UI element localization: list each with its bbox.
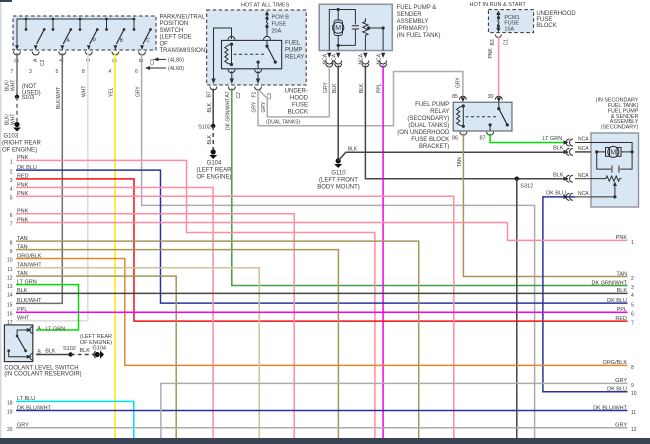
primary pump internal top bus [329, 10, 355, 51]
relay coil [225, 43, 233, 66]
left wire 16 PPL [7, 307, 628, 317]
wire WHT pin8 vertical [16, 53, 88, 321]
primary motor [333, 8, 344, 51]
svg-text:NCA: NCA [323, 53, 329, 64]
svg-text:PPL: PPL [617, 307, 627, 313]
left wire 6 PNK [10, 209, 294, 438]
wire BLK primary pump 2 to S312 run [365, 66, 568, 179]
wire BLK coolant to S102 [36, 354, 71, 356]
switch blade 5 (B) [114, 28, 126, 50]
page corner mark [0, 0, 12, 2]
svg-text:7: 7 [10, 222, 13, 228]
svg-text:A7: A7 [225, 91, 231, 97]
connector arcs below switch pins [14, 52, 146, 56]
svg-text:8: 8 [631, 365, 634, 371]
svg-text:S102: S102 [63, 346, 76, 352]
switch blade 3 (A) [60, 28, 72, 50]
svg-text:6: 6 [631, 312, 634, 318]
wire GRY primary pump [328, 66, 330, 117]
svg-text:OF ENGINE): OF ENGINE) [2, 148, 37, 154]
left wire 3 RED [10, 174, 628, 321]
connector arcs below dashed box [210, 87, 262, 91]
bottom page bar [0, 438, 650, 444]
primary pump label [397, 5, 441, 39]
svg-text:12: 12 [631, 427, 637, 433]
svg-text:PCM B: PCM B [272, 15, 290, 21]
wire link into secondary box blk2 [575, 178, 591, 180]
svg-text:15A: 15A [504, 26, 514, 32]
svg-text:FUSE: FUSE [272, 22, 287, 28]
svg-text:HOT AT ALL TIMES: HOT AT ALL TIMES [241, 3, 290, 9]
left wire 13 LT GRN [7, 279, 79, 330]
svg-text:BLK/: BLK/ [4, 80, 10, 91]
fuel pump sender assembly secondary box [591, 133, 639, 207]
fuse PCM1 15A [496, 11, 519, 33]
primary capacitor [338, 26, 359, 46]
svg-text:C2: C2 [40, 59, 46, 66]
svg-text:GRY: GRY [323, 82, 329, 93]
svg-text:BLK: BLK [348, 147, 358, 153]
svg-text:FUEL PUMP &: FUEL PUMP & [397, 5, 437, 11]
svg-text:GRY: GRY [261, 101, 267, 112]
svg-text:(ON UNDERHOOD: (ON UNDERHOOD [397, 130, 450, 136]
svg-text:USED): USED) [22, 91, 41, 97]
svg-text:BLK: BLK [553, 172, 564, 178]
right wire 7 RED [615, 316, 634, 327]
svg-text:POSITION: POSITION [160, 21, 189, 27]
primary pump pin arrows and connectors [327, 53, 385, 58]
svg-text:18: 18 [7, 401, 13, 407]
secondary relay label [397, 102, 450, 150]
connector arcs above secondary relay [459, 96, 502, 100]
NCA connectors secondary (4x arrow + arcs) [566, 139, 573, 200]
wire BLK primary pump to G110 [337, 66, 339, 161]
svg-text:NCA: NCA [332, 53, 338, 64]
svg-text:BLK: BLK [207, 134, 213, 144]
fuse PCM B 20A [265, 11, 289, 37]
underhood fuse block label (top right) [536, 11, 576, 29]
svg-text:BLK/: BLK/ [4, 114, 10, 125]
coolant switch connector arcs [30, 327, 33, 361]
svg-text:FUEL PUMP: FUEL PUMP [415, 102, 449, 108]
secondary internal feed from LT GRN [575, 143, 632, 152]
svg-text:WHT: WHT [17, 316, 30, 322]
fuel pump relay secondary box [453, 102, 512, 131]
splice S102 lower [63, 346, 76, 357]
(NOT USED) label pin 3 [22, 84, 41, 97]
svg-text:BLK: BLK [80, 348, 91, 354]
svg-text:10: 10 [7, 258, 13, 264]
svg-text:TAN: TAN [457, 157, 463, 167]
(4L80) arrow [154, 57, 185, 63]
svg-text:PUMP: PUMP [285, 48, 302, 54]
svg-text:9: 9 [10, 249, 13, 255]
wire A7 to dashed box bottom [231, 71, 233, 81]
svg-text:C1: C1 [504, 39, 510, 46]
left wire 1 PNK [10, 155, 375, 438]
left wire 7 PNK [10, 217, 628, 240]
svg-text:HOT IN RUN & START: HOT IN RUN & START [470, 2, 527, 8]
svg-text:20A: 20A [272, 29, 282, 35]
relay coil link dashed [234, 53, 266, 55]
svg-text:(LEFT FRONT: (LEFT FRONT [319, 178, 358, 184]
relay contact [257, 40, 277, 68]
right wire 8 ORG/BLK [603, 360, 634, 371]
svg-text:(PRIMARY): (PRIMARY) [397, 26, 428, 32]
NCA labels primary pins [323, 53, 383, 64]
svg-text:BLK: BLK [553, 146, 564, 152]
svg-text:NCA: NCA [578, 137, 589, 143]
svg-text:(RIGHT REAR: (RIGHT REAR [2, 141, 42, 147]
svg-text:15: 15 [7, 303, 13, 309]
svg-text:FUEL: FUEL [285, 41, 301, 47]
right wire 6 PPL [617, 307, 634, 318]
svg-text:GRY: GRY [615, 423, 627, 429]
underhood fuse block box (hot in run) [488, 10, 533, 33]
svg-text:OF: OF [160, 41, 169, 47]
svg-text:HOOD: HOOD [290, 96, 309, 102]
svg-text:7: 7 [631, 321, 634, 327]
svg-text:LT GRN: LT GRN [46, 326, 66, 332]
svg-text:G104: G104 [93, 346, 106, 352]
left wire 2 DK BLU [10, 165, 628, 303]
wire BLK dashed to G104 lower [71, 354, 95, 356]
svg-text:OF ENGINE): OF ENGINE) [80, 340, 112, 346]
wire YEL pin4 vertical [114, 53, 116, 438]
coolant switch contacts [7, 328, 31, 359]
svg-text:NCA: NCA [578, 146, 589, 152]
left wire 18 LT BLU [7, 396, 134, 438]
relay coil feed to pin B7 [214, 28, 232, 81]
svg-text:(IN FUEL TANK): (IN FUEL TANK) [397, 33, 441, 39]
svg-text:19: 19 [7, 410, 13, 416]
svg-text:B7: B7 [207, 91, 213, 97]
switch contact pin D/7 arrow [16, 40, 18, 47]
svg-text:PARK/NEUTRAL: PARK/NEUTRAL [160, 15, 206, 21]
svg-text:ORG/BLK: ORG/BLK [603, 360, 628, 366]
switch blade 2 [34, 28, 46, 50]
svg-text:(SECONDARY): (SECONDARY) [407, 116, 449, 122]
svg-text:RELAY: RELAY [430, 109, 449, 115]
svg-text:C: C [86, 58, 92, 62]
left wire 10 ORG/BLK [7, 253, 628, 365]
svg-text:86: 86 [452, 136, 458, 142]
svg-text:G103: G103 [4, 134, 19, 140]
svg-text:4: 4 [631, 293, 634, 299]
right wire 1 PNK [616, 235, 634, 246]
coolant level switch label [4, 366, 81, 378]
relay label [285, 41, 304, 61]
left wire 19 DK BLU/WHT [7, 405, 628, 415]
svg-text:BODY MOUNT): BODY MOUNT) [317, 185, 360, 191]
secondary pump text [596, 98, 639, 131]
right wire 3 DK GRN/WHT [592, 280, 634, 291]
connector arc below PCM1 fuse [495, 35, 501, 38]
svg-text:7: 7 [11, 69, 14, 75]
(4L60) arrow [145, 66, 184, 72]
svg-text:NCA: NCA [578, 173, 589, 179]
svg-text:DK BLU: DK BLU [607, 387, 627, 393]
svg-text:3: 3 [29, 69, 32, 75]
svg-text:SWITCH: SWITCH [160, 28, 184, 34]
svg-text:5: 5 [56, 69, 59, 75]
svg-text:BLK: BLK [332, 83, 338, 93]
underhood fuse block label [285, 89, 309, 116]
svg-text:TAN: TAN [616, 271, 627, 277]
svg-text:PNK: PNK [488, 48, 494, 59]
left wire 8 TAN [10, 236, 419, 438]
svg-text:20: 20 [7, 427, 13, 433]
svg-text:85: 85 [452, 94, 458, 100]
svg-text:12: 12 [7, 275, 13, 281]
svg-text:FUSE BLOCK: FUSE BLOCK [411, 137, 449, 143]
svg-text:BLK: BLK [45, 349, 56, 355]
right wire 11 DK BLU/WHT [593, 405, 636, 416]
right wire 5 DK BLU [607, 298, 634, 309]
svg-text:F1: F1 [251, 91, 257, 97]
svg-text:GRY: GRY [135, 86, 141, 97]
svg-text:4: 4 [109, 69, 112, 75]
fuel pump sender assembly primary box [319, 4, 392, 50]
wire BLK/WHT dashed to G103 [16, 97, 18, 123]
svg-text:RELAY: RELAY [285, 55, 304, 61]
svg-text:RED: RED [615, 316, 627, 322]
svg-text:11: 11 [631, 410, 636, 416]
svg-text:LT GRN: LT GRN [543, 136, 563, 142]
svg-text:5: 5 [631, 303, 634, 309]
wire F1 to dashed box bottom [257, 71, 259, 81]
svg-text:M: M [335, 25, 341, 32]
svg-text:UNDER-: UNDER- [285, 89, 308, 95]
svg-text:DK GRN/WHT: DK GRN/WHT [225, 98, 231, 130]
wire GRY C3 branch [260, 91, 330, 117]
secondary sender resistor [591, 176, 622, 198]
left wire 9 TAN [10, 244, 339, 438]
svg-text:87: 87 [480, 136, 486, 142]
svg-text:10: 10 [631, 391, 637, 397]
switch pin letters [14, 58, 156, 66]
wire TAN relay 86 [463, 134, 627, 277]
svg-text:(4L60): (4L60) [168, 66, 184, 72]
svg-text:14: 14 [7, 293, 13, 299]
svg-text:WHT: WHT [11, 80, 17, 91]
(LEFT REAR OF ENGINE) label lower [80, 334, 112, 346]
svg-text:DK BLU: DK BLU [546, 190, 566, 196]
connector arcs below secondary relay [460, 132, 494, 136]
secondary motor [595, 146, 634, 157]
svg-text:BLOCK: BLOCK [288, 110, 308, 116]
wire LT GRN relay 87 [490, 134, 567, 143]
svg-text:BLK/WHT: BLK/WHT [17, 298, 42, 304]
svg-text:B3: B3 [490, 39, 496, 45]
park/neutral position switch box [13, 16, 156, 50]
wire DK BLU secondary [543, 197, 628, 392]
wire link into secondary box dkblu [575, 196, 591, 198]
underhood fuse block box (hot at all times) [207, 10, 307, 85]
svg-text:8: 8 [82, 69, 85, 75]
svg-text:BLK: BLK [207, 102, 213, 112]
rotated label BLK/WHT upper [4, 80, 16, 91]
svg-text:YEL: YEL [109, 87, 115, 97]
svg-text:GRY: GRY [455, 77, 461, 88]
svg-text:NCA: NCA [376, 53, 382, 64]
svg-text:13: 13 [7, 284, 13, 290]
primary sender resistor [363, 18, 385, 50]
svg-text:2: 2 [631, 276, 634, 282]
switch pin numbers [11, 69, 139, 75]
svg-text:G110: G110 [331, 171, 346, 177]
left wire 5 PNK [10, 191, 454, 438]
relay box connector arcs [228, 36, 271, 72]
secondary relay coil [457, 104, 465, 128]
left wire 4 PNK [10, 182, 213, 438]
wire BLK/WHT pin7 upper [16, 53, 18, 97]
svg-text:G104: G104 [207, 161, 222, 167]
svg-text:DK GRN/WHT: DK GRN/WHT [592, 280, 628, 286]
right wire 10 DK BLU [607, 387, 637, 398]
wire GRY F1 dual tanks run [258, 72, 463, 126]
secondary relay dashed link [466, 116, 498, 118]
svg-text:3: 3 [631, 285, 634, 291]
left wire 20 GRY [7, 423, 628, 433]
svg-text:PPL: PPL [377, 83, 383, 93]
park/neutral switch label [160, 15, 208, 55]
svg-text:SENDER: SENDER [397, 12, 423, 18]
svg-text:NCA: NCA [578, 191, 589, 197]
ground G104 lower [93, 346, 106, 359]
svg-text:(IN COOLANT RESERVOIR): (IN COOLANT RESERVOIR) [4, 372, 81, 378]
wire BLK B7 to S102 [212, 89, 214, 127]
ground G104 upper [196, 149, 232, 180]
page left border line [0, 0, 2, 444]
svg-text:(4L80): (4L80) [168, 58, 184, 64]
svg-text:2: 2 [10, 169, 13, 175]
svg-text:(DUAL TANKS): (DUAL TANKS) [266, 120, 300, 126]
splice S312 [515, 177, 534, 190]
svg-text:(SECONDARY): (SECONDARY) [601, 125, 639, 131]
left wire 12 TAN [7, 271, 176, 438]
wire DK GRN/WHT A7 vertical [232, 89, 628, 286]
arrows into secondary relay [461, 97, 501, 102]
svg-text:S102: S102 [198, 124, 211, 130]
secondary capacitor loop [597, 152, 632, 173]
wire BLK S312 vertical [516, 179, 518, 438]
svg-text:(NOT: (NOT [22, 84, 37, 90]
svg-text:GRY: GRY [252, 101, 258, 112]
fuel pump relay box [222, 40, 282, 68]
wire BLK dashed to G104 [212, 126, 214, 150]
svg-text:BLK: BLK [359, 83, 365, 93]
switch blade 4 (P) [87, 28, 99, 50]
wire GRY pin6 vertical to horizontal run [142, 53, 535, 438]
svg-text:BLK: BLK [617, 288, 628, 294]
svg-text:6: 6 [135, 69, 138, 75]
switch blade 6 (C) [140, 28, 152, 50]
svg-text:8: 8 [10, 240, 13, 246]
svg-text:BLK/WHT: BLK/WHT [56, 87, 62, 109]
svg-text:30: 30 [488, 94, 494, 100]
svg-text:M: M [610, 149, 616, 156]
svg-text:C2: C2 [236, 92, 242, 99]
left wire 15 BLK/WHT [7, 298, 42, 308]
svg-text:4: 4 [10, 187, 13, 193]
svg-text:PNK: PNK [616, 235, 628, 241]
svg-text:1: 1 [631, 240, 634, 246]
svg-text:BRACKET): BRACKET) [419, 144, 449, 150]
coolant level switch box [4, 325, 32, 362]
rotated label BLK/WHT lower [4, 114, 16, 125]
right wire 4 BLK [617, 288, 634, 299]
svg-text:TRANSMISSION): TRANSMISSION) [160, 48, 208, 54]
svg-text:5: 5 [10, 196, 13, 202]
svg-text:11: 11 [7, 267, 12, 273]
splice S102 [198, 124, 215, 131]
splice S103 [15, 95, 35, 101]
left wire 11 TAN/WHT [7, 263, 259, 438]
svg-text:3: 3 [10, 178, 13, 184]
svg-text:DK BLU/WHT: DK BLU/WHT [593, 405, 628, 411]
svg-text:WHT: WHT [82, 86, 88, 97]
switch internal bus [17, 18, 135, 50]
svg-text:(DUAL TANKS): (DUAL TANKS) [408, 123, 449, 129]
right wire 2 TAN [616, 271, 634, 282]
svg-text:(LEFT SIDE: (LEFT SIDE [160, 35, 192, 41]
left wire 17 WHT [7, 316, 30, 326]
svg-text:DK BLU: DK BLU [607, 298, 627, 304]
ground G103 [2, 122, 42, 154]
right wire 12 GRY [615, 423, 637, 434]
svg-text:6: 6 [10, 213, 13, 219]
svg-text:FUSE: FUSE [292, 103, 308, 109]
ground G110 [317, 158, 360, 190]
svg-text:1: 1 [10, 160, 13, 166]
svg-text:16: 16 [7, 312, 13, 318]
right wire 9 GRY [161, 378, 634, 438]
wire PNK fuse to relay 30 [498, 37, 500, 97]
wire PPL primary pump vertical [382, 66, 384, 439]
left wire 14 BLK [7, 288, 628, 298]
wire BLK/WHT pin5 vertical [16, 53, 62, 303]
svg-text:(LEFT REAR: (LEFT REAR [197, 168, 233, 174]
svg-text:S312: S312 [520, 183, 533, 189]
svg-text:C: C [146, 38, 150, 44]
secondary relay contact [489, 102, 509, 131]
wire BLK ground link from secondary pump [338, 152, 568, 161]
svg-text:BLOCK: BLOCK [536, 23, 556, 29]
NCA labels secondary [578, 137, 589, 197]
svg-text:9: 9 [631, 383, 634, 389]
svg-text:ASSEMBLY: ASSEMBLY [397, 19, 429, 25]
svg-text:OF ENGINE): OF ENGINE) [196, 175, 231, 181]
wire BLK secondary 1 (to G110 run) [575, 151, 591, 153]
svg-text:NCA: NCA [359, 53, 365, 64]
